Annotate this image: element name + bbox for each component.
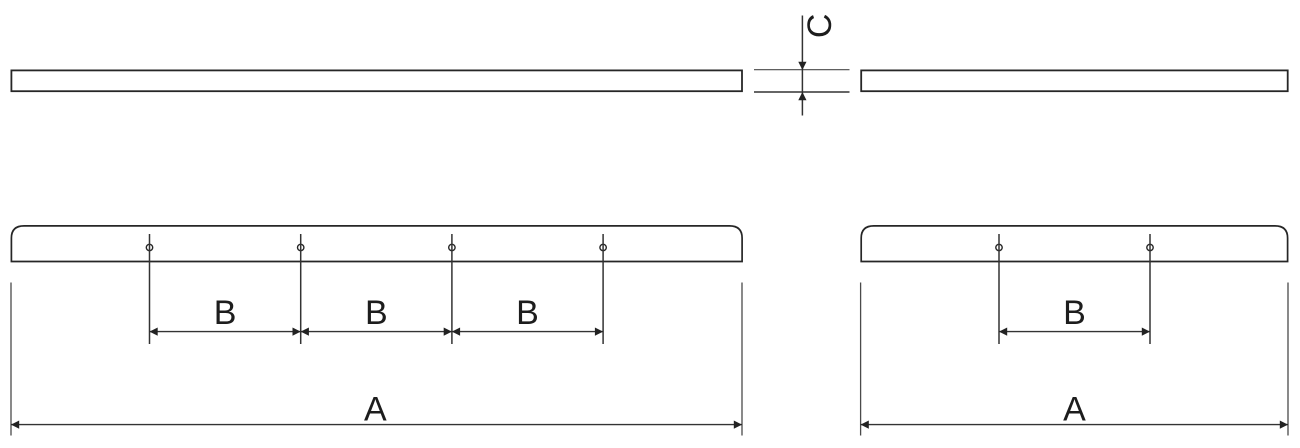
hole 6: [1147, 244, 1153, 250]
hole 4 center line: [602, 234, 604, 344]
hole 2 center line: [300, 234, 302, 344]
dimension C vertical line: [801, 16, 803, 116]
dimension C extension line bottom: [754, 91, 850, 93]
svg-text:B: B: [516, 294, 539, 332]
dimension A left extension line left: [10, 283, 12, 436]
dimension B1 arrow left: [150, 328, 158, 336]
hole 3 center line: [451, 234, 453, 344]
dimension A left extension line right: [741, 283, 743, 436]
dimension B4 line right bar: [999, 331, 1150, 333]
dimension A right extension line left: [860, 283, 862, 436]
dimension A left arrow right: [734, 421, 742, 429]
dimension C arrow up: [798, 92, 806, 100]
left bar side view outline: [11, 70, 742, 91]
dimension A right arrow right: [1280, 421, 1288, 429]
dimension C extension line top: [754, 69, 850, 71]
dimension A left line: [11, 424, 742, 426]
hole 3: [449, 244, 455, 250]
right bar side view outline: [861, 70, 1287, 91]
svg-text:A: A: [1063, 390, 1086, 428]
dimension B1 line: [150, 331, 301, 333]
dimension B2 line: [301, 331, 452, 333]
dimension A right line: [861, 424, 1288, 426]
svg-text:B: B: [214, 294, 237, 332]
hole 5: [996, 244, 1002, 250]
hole 5 center line: [998, 234, 1000, 344]
hole 6 center line: [1149, 234, 1151, 344]
hole 4: [600, 244, 606, 250]
dimension B3 arrow left: [452, 328, 460, 336]
dimension B4 arrow left: [999, 328, 1007, 336]
right bar front view outline: [861, 226, 1287, 262]
hole 1: [146, 244, 152, 250]
dimension B1 arrow right: [293, 328, 301, 336]
hole 1 center line: [149, 234, 151, 344]
svg-text:B: B: [365, 294, 388, 332]
dimension A right arrow left: [861, 421, 869, 429]
dimension B3 line: [452, 331, 603, 333]
dimension A right extension line right: [1287, 283, 1289, 436]
left bar front view outline: [11, 226, 742, 262]
dimension B2 arrow left: [301, 328, 309, 336]
hole 2: [298, 244, 304, 250]
svg-text:A: A: [364, 390, 387, 428]
svg-text:C: C: [801, 14, 839, 39]
dimension C arrow down: [798, 62, 806, 70]
dimension B4 arrow right: [1142, 328, 1150, 336]
dimension A left arrow left: [11, 421, 19, 429]
svg-text:B: B: [1063, 294, 1086, 332]
dimension B3 arrow right: [595, 328, 603, 336]
dimension B2 arrow right: [444, 328, 452, 336]
